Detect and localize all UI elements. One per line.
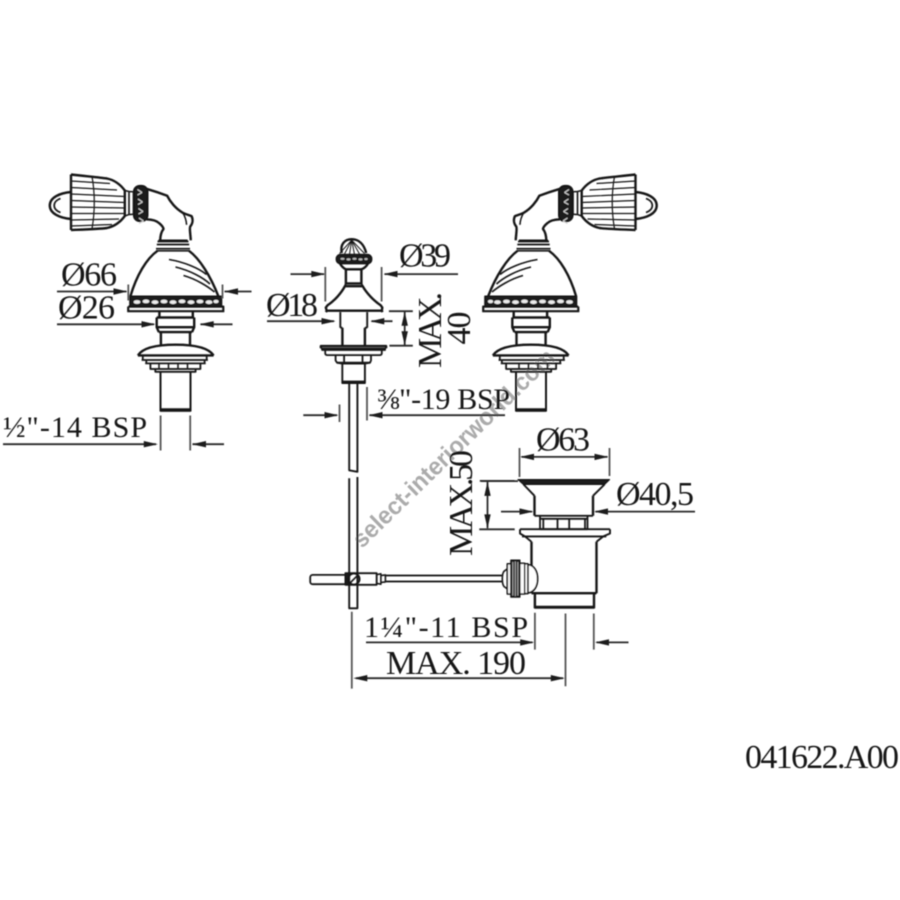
- svg-text:Ø63: Ø63: [536, 422, 590, 459]
- dim Ø18: [267, 320, 393, 322]
- dimension texts: [3, 238, 899, 777]
- collar lip: [155, 369, 195, 372]
- lever thin rod: [385, 576, 502, 582]
- nut tip cup: [502, 569, 507, 589]
- knob facet lines: [71, 181, 125, 226]
- nut ring0: [507, 564, 511, 594]
- escutcheon ring: [145, 360, 206, 363]
- neck ring: [157, 318, 195, 333]
- dim Ø66: [57, 291, 127, 293]
- arrowheads: [114, 271, 610, 682]
- pop-up drain: [502, 480, 610, 609]
- escutcheon plate2: [325, 350, 382, 355]
- svg-text:⅜"-19 BSP: ⅜"-19 BSP: [377, 383, 510, 416]
- crystal knob barrel: [71, 175, 125, 231]
- right handle (mirror): [482, 175, 657, 411]
- mini knob band: [336, 255, 371, 264]
- lift rod upper segment: [349, 383, 357, 472]
- nut ring2: [525, 564, 528, 594]
- tailpiece: [535, 593, 594, 608]
- drain body: [532, 542, 597, 593]
- dim Ø39: [291, 273, 459, 275]
- flange taper: [525, 536, 603, 541]
- bell swirls: [169, 260, 215, 293]
- stem upper (Ø18): [326, 311, 383, 328]
- crystal knob cap: [50, 192, 71, 219]
- dimension graphics: [3, 267, 695, 689]
- stem lower: [342, 328, 365, 346]
- escutcheon plate: [142, 355, 208, 360]
- left handle: [50, 175, 225, 411]
- lever bar left: [310, 575, 348, 584]
- lever clamp: [345, 573, 376, 585]
- grate: [535, 516, 594, 529]
- svg-text:1¼"-11 BSP: 1¼"-11 BSP: [364, 611, 528, 644]
- svg-text:Ø40,5: Ø40,5: [616, 476, 694, 513]
- knob lower ring: [340, 264, 368, 270]
- crystal mini dome: [341, 239, 366, 253]
- clamp screw: [348, 573, 359, 584]
- knob neck: [125, 191, 134, 217]
- decorative collar: [134, 186, 148, 222]
- pop-up bell: [326, 285, 383, 313]
- funnel rim: [518, 480, 610, 485]
- neck step: [159, 311, 192, 317]
- flange: [520, 529, 610, 536]
- dim MAX40: [389, 311, 413, 346]
- svg-text:40: 40: [441, 312, 478, 345]
- dim half-14 BSP: [3, 443, 224, 445]
- dim Ø40,5: [501, 511, 695, 513]
- escutcheon plate1: [321, 346, 386, 348]
- lever arm with hook: [147, 189, 193, 241]
- dim Ø26: [57, 323, 233, 325]
- lift rod lower segment: [349, 477, 357, 608]
- nut cap: [528, 565, 538, 593]
- knurl: [511, 560, 520, 597]
- svg-text:½"-14 BSP: ½"-14 BSP: [3, 411, 147, 444]
- svg-text:041622.A00: 041622.A00: [745, 739, 899, 776]
- band flange: [127, 307, 224, 312]
- neck straight: [159, 332, 192, 345]
- dim 3/8-19 BSP: [303, 414, 505, 416]
- drain upper cylinder: [535, 496, 594, 516]
- svg-text:MAX. 190: MAX. 190: [386, 645, 526, 682]
- svg-text:Ø39: Ø39: [399, 238, 451, 275]
- dim 1¼-11 BSP: [366, 641, 629, 643]
- threaded pipe: [161, 372, 191, 411]
- bell body: [130, 251, 218, 296]
- center pop-up knob: [310, 239, 502, 608]
- escutcheon nut: [336, 355, 371, 363]
- dim Ø63: [522, 456, 608, 458]
- svg-text:Ø66: Ø66: [61, 257, 117, 294]
- svg-text:Ø26: Ø26: [58, 290, 115, 327]
- dim MAX190: [356, 677, 563, 679]
- lever ferrule: [377, 574, 386, 584]
- nut ring1: [520, 563, 525, 594]
- lower stem: [337, 363, 370, 383]
- svg-text:MAX.50: MAX.50: [443, 450, 480, 556]
- svg-text:Ø18: Ø18: [266, 287, 318, 324]
- escutcheon dome: [138, 345, 214, 356]
- threaded collar: [150, 363, 200, 369]
- decorative band: [130, 296, 222, 306]
- bell neck rings: [156, 240, 190, 251]
- dim MAX50: [479, 481, 518, 529]
- knob neck: [346, 269, 362, 284]
